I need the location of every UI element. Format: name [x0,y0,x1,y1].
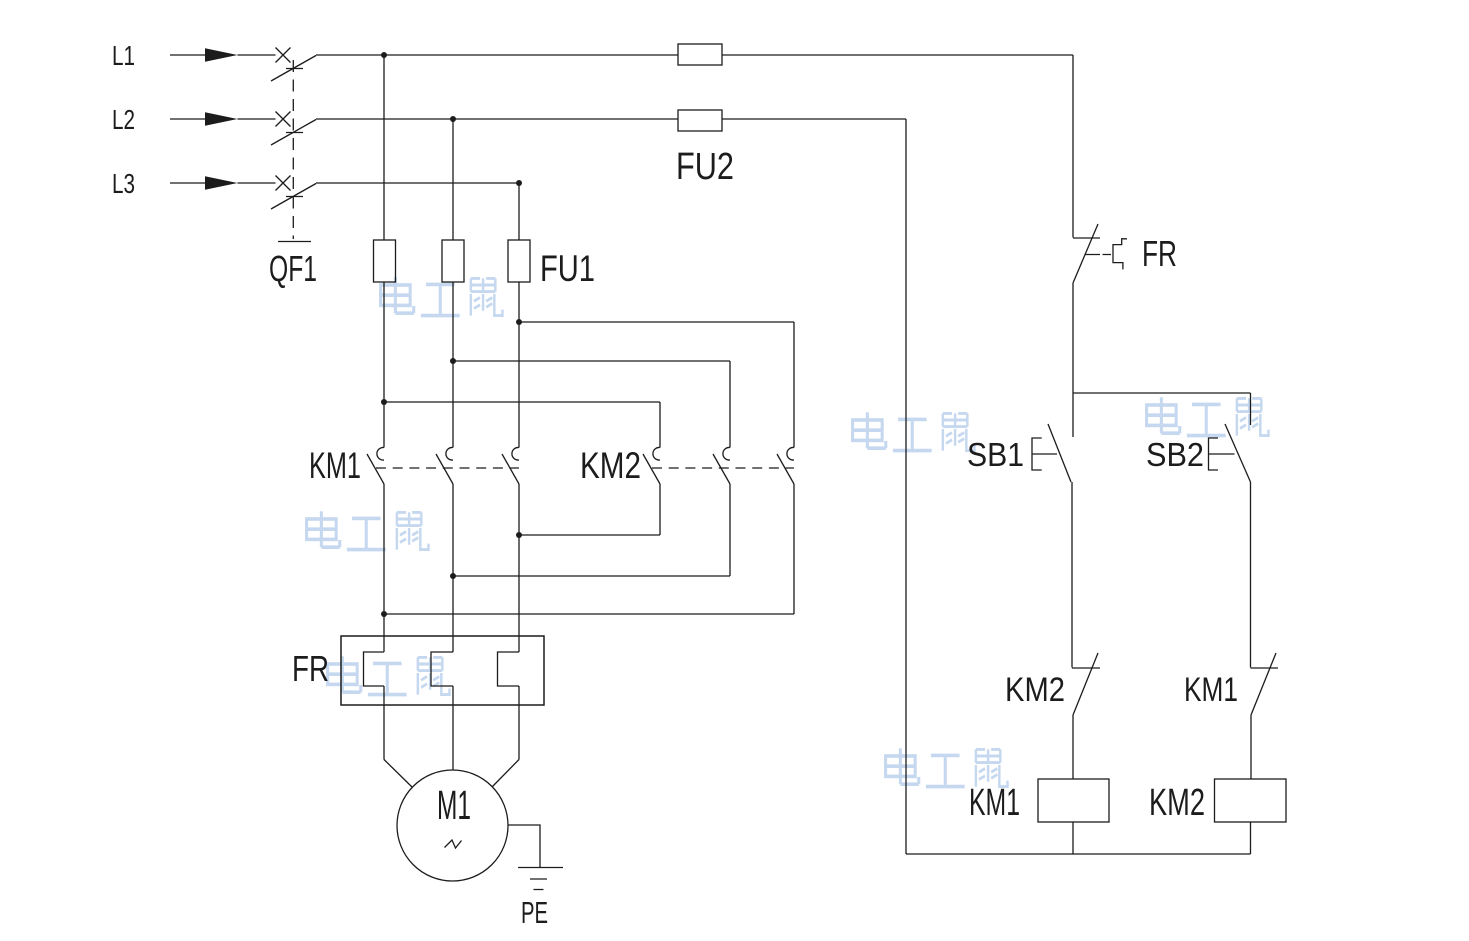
svg-text:L3: L3 [112,168,135,199]
svg-text:M1: M1 [437,782,471,828]
svg-text:SB2: SB2 [1146,436,1204,473]
svg-text:PE: PE [521,895,548,930]
svg-text:FR: FR [1142,233,1177,274]
svg-text:L1: L1 [112,40,135,71]
svg-text:KM2: KM2 [1149,782,1205,824]
svg-text:FU1: FU1 [540,248,595,289]
svg-text:KM1: KM1 [309,445,361,486]
svg-text:KM2: KM2 [580,445,641,486]
svg-text:KM2: KM2 [1005,671,1065,709]
svg-text:L2: L2 [112,104,135,135]
svg-text:KM1: KM1 [1184,671,1238,709]
svg-text:FU2: FU2 [676,146,734,188]
svg-text:KM1: KM1 [969,782,1020,824]
svg-text:SB1: SB1 [967,436,1024,473]
svg-text:QF1: QF1 [269,248,317,289]
svg-text:FR: FR [292,648,329,689]
